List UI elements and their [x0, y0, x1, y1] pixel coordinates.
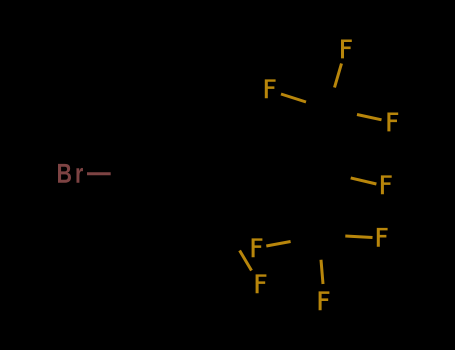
bond C9–F (bottom CF3 upper-left F half-bond)	[266, 242, 290, 247]
atom label F (bottom CF3, bottom F)	[319, 291, 330, 310]
bond C9–F (bottom CF3 bottom F half-bond)	[321, 260, 323, 284]
bond C7–F (top CF3 left F half-bond)	[281, 94, 306, 102]
atom label F (bottom CF3, right F)	[377, 228, 388, 247]
bond C3(ring)–F (ring F half-bond)	[240, 251, 252, 271]
atom label F (top CF3, left F)	[265, 79, 276, 98]
bond C8–F (central F half-bond)	[351, 178, 377, 184]
bond Br–C1 (Br-colored half)	[87, 172, 111, 175]
atom label F (bottom CF3, upper-left F)	[252, 238, 263, 257]
bond C7–F (top CF3 upper F half-bond)	[335, 64, 342, 88]
atom label F (top CF3, right F)	[387, 113, 398, 132]
atom label Br (bromine on ring C1)	[58, 164, 83, 183]
atom label F (central CF fluorine)	[381, 175, 392, 194]
bond C9–F (bottom CF3 right F half-bond)	[345, 236, 372, 238]
atom label F (top CF3, upper F)	[341, 40, 352, 59]
atom label F (aromatic ring fluorine, ortho position)	[256, 274, 267, 293]
bond C7–F (top CF3 right F half-bond)	[357, 115, 382, 120]
